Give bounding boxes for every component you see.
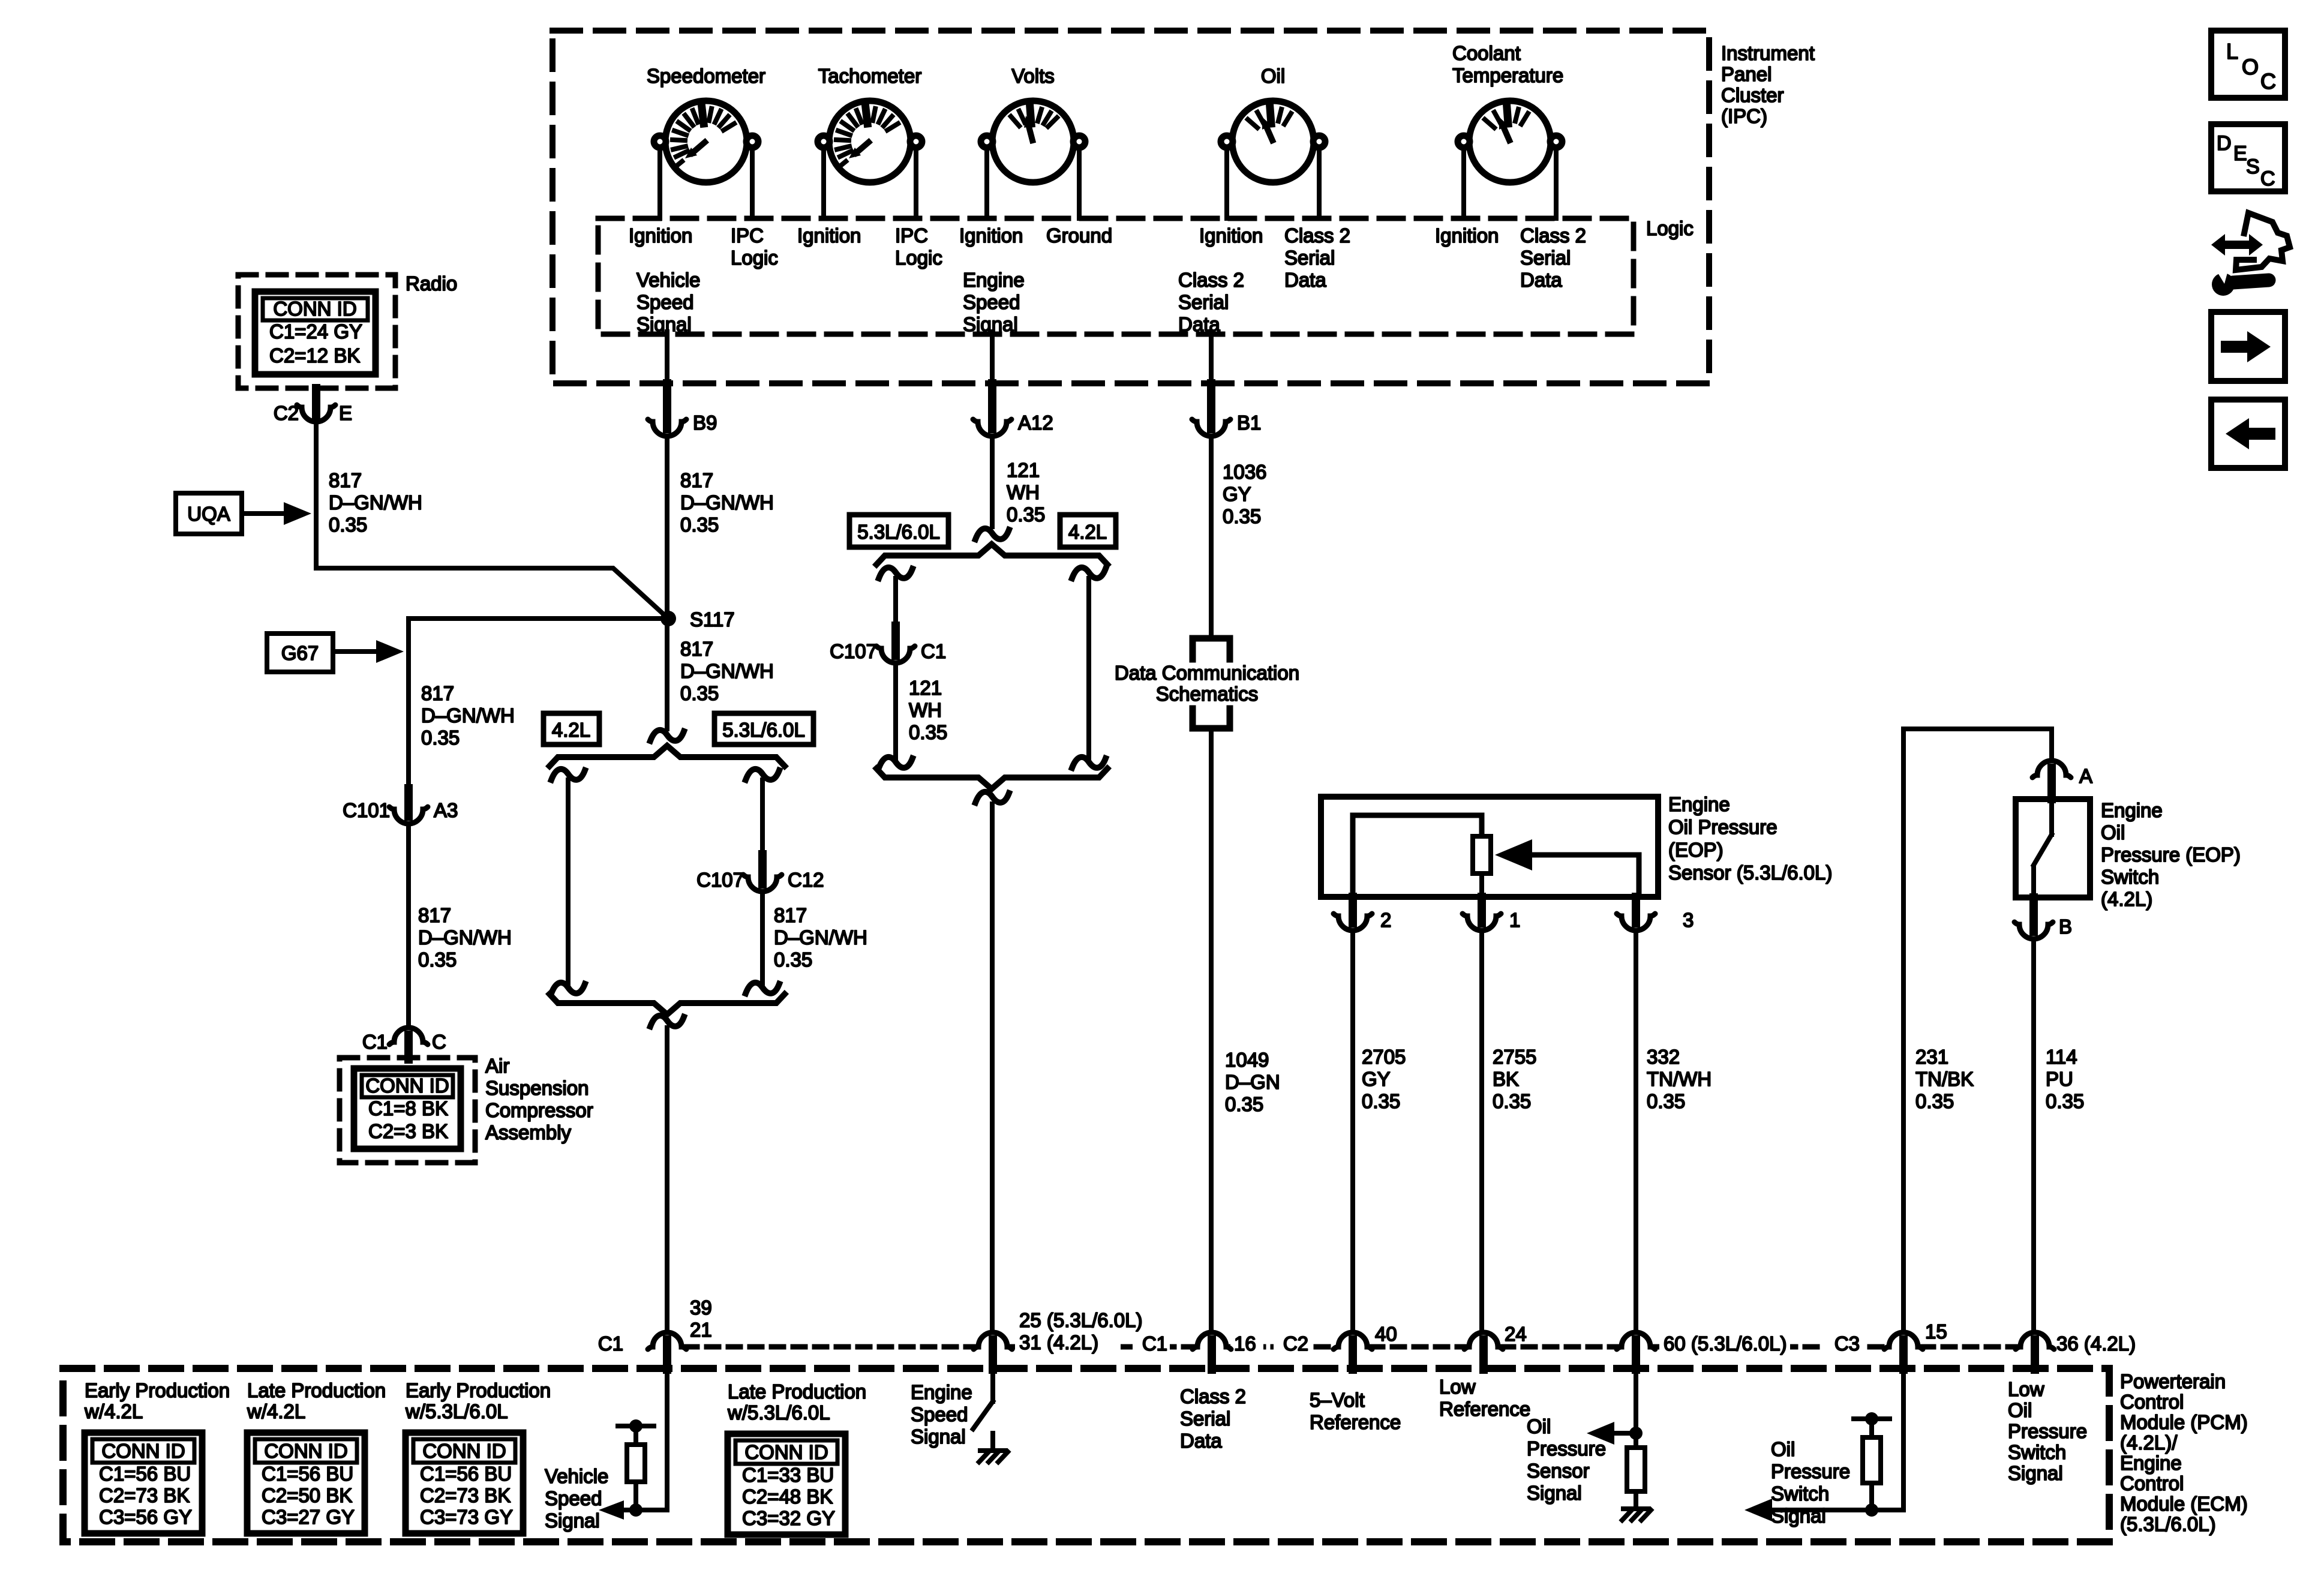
air suspension compressor box <box>340 1058 475 1163</box>
label wire 114 PU <box>2046 1046 2084 1112</box>
svg-text:E: E <box>2233 142 2247 165</box>
svg-text:(4.2L)/: (4.2L)/ <box>2120 1431 2178 1454</box>
svg-text:C2=50 BK: C2=50 BK <box>262 1484 352 1506</box>
label wire 817 (B9 drop) <box>680 469 774 536</box>
svg-text:D–GN/WH: D–GN/WH <box>329 491 422 514</box>
svg-text:121: 121 <box>909 677 942 699</box>
svg-text:C2: C2 <box>274 402 299 424</box>
label 5-Volt Reference <box>1310 1389 1401 1433</box>
svg-text:Ground: Ground <box>1046 224 1112 247</box>
svg-text:GY: GY <box>1362 1068 1391 1090</box>
label Engine Oil Pressure (EOP) Sensor <box>1668 793 1832 884</box>
switch blade (EOP switch) <box>2034 799 2052 897</box>
option box 5.3L/6.0L (left, group 2) <box>849 515 948 547</box>
icon diagnostic jump (arrows + wrench) <box>2211 213 2290 296</box>
label wire 817 (C107/C12) <box>774 904 867 971</box>
svg-text:Ignition: Ignition <box>1199 224 1263 247</box>
svg-text:C3=27 GY: C3=27 GY <box>262 1506 355 1528</box>
label Air Suspension Compressor Assembly <box>485 1055 593 1143</box>
svg-text:0.35: 0.35 <box>1223 505 1261 527</box>
wire EOP sensor pin 3 down <box>1634 930 1638 1332</box>
svg-text:Class 2: Class 2 <box>1178 269 1244 291</box>
wire B1 drop <box>1209 436 1214 638</box>
svg-text:Schematics: Schematics <box>1156 683 1259 705</box>
svg-text:0.35: 0.35 <box>1647 1090 1685 1112</box>
pin Volts Ground <box>1046 224 1112 247</box>
svg-text:0.35: 0.35 <box>421 727 460 749</box>
svg-text:4.2L: 4.2L <box>1068 521 1107 543</box>
wire S117 left branch <box>409 619 668 788</box>
G67 option box <box>267 634 404 672</box>
svg-text:Suspension: Suspension <box>485 1077 588 1099</box>
svg-text:B1: B1 <box>1237 412 1261 434</box>
svg-text:Class 2: Class 2 <box>1520 224 1586 247</box>
node Logic label <box>1646 217 1694 239</box>
reference Data Communication Schematics <box>1115 638 1299 728</box>
svg-text:C1=56 BU: C1=56 BU <box>420 1463 512 1485</box>
svg-text:Module (PCM): Module (PCM) <box>2120 1411 2248 1433</box>
svg-text:IPC: IPC <box>895 224 928 247</box>
svg-text:Logic: Logic <box>895 247 942 269</box>
svg-text:Serial: Serial <box>1284 247 1335 269</box>
wire EOP sensor pin 2 down <box>1350 930 1355 1332</box>
svg-text:2755: 2755 <box>1493 1046 1536 1068</box>
svg-text:w/4.2L: w/4.2L <box>84 1400 143 1422</box>
svg-text:Speed: Speed <box>911 1403 968 1425</box>
junction oil pressure switch <box>1865 1503 1878 1517</box>
resistor (EOP sensor element) <box>1473 836 1491 873</box>
svg-text:Data: Data <box>1180 1430 1222 1452</box>
svg-text:40: 40 <box>1375 1323 1397 1345</box>
svg-text:Compressor: Compressor <box>485 1099 593 1121</box>
connector C107 / C12 <box>696 854 824 891</box>
svg-text:(IPC): (IPC) <box>1721 105 1767 127</box>
connector B (EOP switch) <box>2014 897 2072 939</box>
brace top (group 2) <box>876 544 1107 565</box>
svg-text:C3: C3 <box>1834 1332 1860 1355</box>
svg-text:Signal: Signal <box>1771 1505 1826 1527</box>
svg-text:Ignition: Ignition <box>959 224 1023 247</box>
splice option tilde (A12 upper) <box>975 529 1009 539</box>
connector PCM C1 pin 16 <box>1142 1332 1256 1370</box>
gauge Volts <box>981 65 1085 182</box>
svg-text:Data Communication: Data Communication <box>1115 662 1299 684</box>
svg-text:Class 2: Class 2 <box>1180 1385 1246 1407</box>
wire pin B down <box>2031 939 2036 1332</box>
svg-text:C101: C101 <box>343 799 390 821</box>
svg-text:Low: Low <box>2008 1378 2044 1400</box>
svg-text:Instrument: Instrument <box>1721 42 1815 64</box>
icon LOC box <box>2211 31 2285 98</box>
splice option tilde (A12 lower) <box>975 792 1009 1332</box>
table CONN ID (late 5.3/6.0) <box>728 1434 845 1535</box>
svg-text:Signal: Signal <box>2008 1462 2063 1484</box>
svg-text:D: D <box>2217 132 2232 155</box>
wire Oil left leg <box>1224 148 1229 218</box>
wire IPC output to B9 <box>665 332 669 383</box>
connector C1 / C (compressor) <box>362 1028 446 1059</box>
svg-text:Signal: Signal <box>636 313 692 335</box>
resistor (oil pressure switch pullup) <box>1854 1412 1890 1510</box>
svg-text:Early Production: Early Production <box>406 1379 551 1401</box>
wire 1049 D-GN <box>1209 728 1214 1332</box>
splice option tilde (B9 upper) <box>650 619 684 741</box>
wire 817 D-GN/WH from radio <box>316 421 668 619</box>
svg-text:Volts: Volts <box>1011 65 1055 87</box>
wire IPC output to B1 <box>1209 332 1214 383</box>
svg-text:Ignition: Ignition <box>629 224 692 247</box>
svg-text:Reference: Reference <box>1439 1398 1530 1420</box>
svg-text:15: 15 <box>1925 1320 1947 1343</box>
svg-text:Speed: Speed <box>545 1487 602 1509</box>
svg-text:Air: Air <box>485 1055 509 1077</box>
IPC label <box>1721 42 1815 127</box>
connector C2 / E (Radio) <box>274 388 352 424</box>
label Low Reference <box>1439 1376 1530 1420</box>
wire Speedometer left leg <box>657 148 662 218</box>
UQA option box <box>176 493 311 534</box>
option box 4.2L (left) <box>544 713 599 745</box>
svg-text:Switch: Switch <box>2101 866 2159 888</box>
svg-text:CONN ID: CONN ID <box>365 1074 449 1097</box>
wire Coolant right leg <box>1554 148 1559 218</box>
wire pin 60 into PCM <box>1634 1370 1638 1433</box>
svg-text:5.3L/6.0L: 5.3L/6.0L <box>857 521 940 543</box>
radio CONN ID table <box>255 292 376 374</box>
svg-text:25 (5.3L/6.0L): 25 (5.3L/6.0L) <box>1019 1309 1142 1331</box>
wire Tachometer left leg <box>821 148 826 218</box>
svg-text:w/5.3L/6.0L: w/5.3L/6.0L <box>727 1401 830 1424</box>
svg-text:39: 39 <box>690 1296 712 1319</box>
connector PCM C2 pin 40 <box>1283 1323 1397 1370</box>
svg-text:UQA: UQA <box>187 503 230 525</box>
splice S117 <box>660 608 735 631</box>
svg-text:C2=12 BK: C2=12 BK <box>269 344 360 367</box>
svg-text:C2=73 BK: C2=73 BK <box>99 1484 190 1506</box>
brace left vertical 4.2L path <box>551 769 585 993</box>
svg-text:Speedometer: Speedometer <box>647 65 765 87</box>
label Early Production w/4.2L <box>84 1379 230 1422</box>
svg-text:16: 16 <box>1234 1332 1256 1355</box>
svg-text:C12: C12 <box>788 869 824 891</box>
icon previous arrow box <box>2211 400 2285 468</box>
label wire 231 TN/BK <box>1915 1046 1974 1112</box>
svg-text:Signal: Signal <box>545 1509 600 1532</box>
svg-text:Ignition: Ignition <box>797 224 861 247</box>
wire below C107/C12 <box>746 891 779 993</box>
svg-text:0.35: 0.35 <box>1007 503 1045 526</box>
brace bottom (group 1) <box>550 994 785 1014</box>
connector C101 / A3 <box>343 788 458 824</box>
svg-text:A12: A12 <box>1018 412 1053 434</box>
svg-text:C: C <box>2260 69 2276 94</box>
svg-text:Oil: Oil <box>1527 1415 1551 1437</box>
label wire 817 (radio drop) <box>329 469 422 536</box>
svg-text:Coolant: Coolant <box>1452 42 1521 64</box>
svg-text:C107: C107 <box>830 640 877 662</box>
svg-text:Oil: Oil <box>2101 821 2125 843</box>
svg-text:TN/BK: TN/BK <box>1915 1068 1974 1090</box>
svg-text:Control: Control <box>2120 1472 2184 1494</box>
svg-text:CONN ID: CONN ID <box>422 1440 506 1462</box>
svg-text:Vehicle: Vehicle <box>545 1465 608 1487</box>
wire PCM connector interface (dotted) <box>685 1344 2017 1350</box>
svg-text:S117: S117 <box>690 608 735 631</box>
svg-text:Serial: Serial <box>1520 247 1571 269</box>
svg-text:Reference: Reference <box>1310 1411 1401 1433</box>
connector B9 <box>648 383 717 436</box>
svg-text:Logic: Logic <box>731 247 778 269</box>
EOP sensor box (Engine Oil Pressure Sensor) <box>1321 797 1658 897</box>
wire EOP sensor pin 1 down <box>1479 930 1484 1332</box>
table CONN ID (late 4.2L) <box>247 1433 365 1533</box>
svg-text:2705: 2705 <box>1362 1046 1406 1068</box>
svg-text:Speed: Speed <box>963 291 1020 313</box>
brace right vertical 5.3L/6.0L path <box>746 769 779 854</box>
svg-text:Vehicle: Vehicle <box>636 269 700 291</box>
label wire 817 (to compressor) <box>418 904 512 971</box>
resistor (vehicle speed pullup) <box>618 1419 654 1510</box>
svg-text:C1: C1 <box>362 1031 388 1053</box>
svg-text:Powerterain: Powerterain <box>2120 1370 2226 1392</box>
svg-text:31 (4.2L): 31 (4.2L) <box>1019 1331 1098 1353</box>
svg-text:A3: A3 <box>434 799 458 821</box>
svg-text:CONN ID: CONN ID <box>744 1441 828 1463</box>
svg-text:1036: 1036 <box>1223 461 1266 483</box>
label Late Production w/5.3L/6.0L <box>727 1380 866 1424</box>
svg-text:C1=33 BU: C1=33 BU <box>742 1464 834 1486</box>
svg-text:Oil Pressure: Oil Pressure <box>1668 816 1777 838</box>
pin Oil Class 2 Serial Data <box>1284 224 1350 291</box>
connector PCM pin 24 <box>1464 1323 1527 1370</box>
svg-text:(5.3L/6.0L): (5.3L/6.0L) <box>2120 1513 2216 1535</box>
label wire 817 (left branch) <box>421 682 515 749</box>
svg-text:5–Volt: 5–Volt <box>1310 1389 1365 1411</box>
svg-text:Late Production: Late Production <box>728 1380 866 1403</box>
label Powerterain Control Module <box>2120 1370 2248 1535</box>
svg-text:Data: Data <box>1284 269 1326 291</box>
svg-text:A: A <box>2079 765 2092 787</box>
resistor (oil pressure sensor) <box>1627 1433 1645 1491</box>
svg-text:Engine: Engine <box>2120 1452 2182 1474</box>
svg-text:(EOP): (EOP) <box>1668 839 1724 861</box>
svg-text:C1: C1 <box>1142 1332 1167 1355</box>
svg-text:1: 1 <box>1509 909 1520 931</box>
option box 5.3L/6.0L (right) <box>714 713 813 745</box>
svg-text:C2=3 BK: C2=3 BK <box>368 1120 448 1142</box>
svg-text:C107: C107 <box>696 869 744 891</box>
svg-text:Switch: Switch <box>2008 1441 2066 1463</box>
wire 817 D-GN/WH from B9 <box>665 436 669 619</box>
pin Tachometer Ignition <box>797 224 861 247</box>
pin Coolant Class 2 Serial Data <box>1520 224 1586 291</box>
svg-text:O: O <box>2242 55 2259 79</box>
pin Oil Ignition <box>1199 224 1263 247</box>
gauge Tachometer <box>818 65 922 182</box>
wire Tachometer right leg <box>914 148 918 218</box>
svg-text:C1=56 BU: C1=56 BU <box>262 1463 353 1485</box>
connector EOP sensor pin 2 <box>1334 897 1391 931</box>
svg-text:24: 24 <box>1505 1323 1527 1345</box>
pin Tachometer IPC Logic <box>895 224 942 269</box>
svg-text:817: 817 <box>329 469 362 491</box>
svg-text:G67: G67 <box>281 642 319 664</box>
svg-text:Radio: Radio <box>406 272 457 295</box>
svg-text:Pressure: Pressure <box>1771 1460 1850 1482</box>
svg-text:C: C <box>2260 167 2275 190</box>
svg-text:Tachometer: Tachometer <box>818 65 921 87</box>
node Engine Speed Signal (IPC) <box>963 269 1025 335</box>
svg-text:C1=24 GY: C1=24 GY <box>269 320 362 343</box>
svg-text:3: 3 <box>1683 909 1694 931</box>
wire below C107/C1 <box>879 663 912 768</box>
brace top (group 1) <box>550 746 785 766</box>
radio box (Radio) <box>238 272 457 388</box>
junction vehicle speed <box>629 1503 642 1517</box>
label wire 332 TN/WH <box>1647 1046 1712 1112</box>
svg-text:(4.2L): (4.2L) <box>2101 888 2152 910</box>
svg-text:Engine: Engine <box>963 269 1025 291</box>
PCM dashed box (Powertrain Control Module) <box>63 1368 2109 1542</box>
label backgrounds on connector row <box>1015 1332 1864 1355</box>
svg-text:Switch: Switch <box>1771 1482 1829 1505</box>
node Vehicle Speed Signal (IPC) <box>636 269 700 335</box>
svg-text:114: 114 <box>2046 1046 2077 1068</box>
svg-text:C1=8 BK: C1=8 BK <box>368 1097 448 1119</box>
svg-text:Oil: Oil <box>1771 1438 1795 1460</box>
svg-text:1049: 1049 <box>1225 1049 1269 1071</box>
svg-text:TN/WH: TN/WH <box>1647 1068 1712 1090</box>
svg-text:817: 817 <box>421 682 454 704</box>
brace bottom (group 2) <box>876 769 1107 789</box>
svg-text:Data: Data <box>1520 269 1562 291</box>
label Engine Oil Pressure (EOP) Switch (4.2L) <box>2101 799 2241 910</box>
wire C101 to air suspension <box>406 824 411 1027</box>
svg-text:D–GN/WH: D–GN/WH <box>418 926 512 948</box>
svg-text:Ignition: Ignition <box>1435 224 1499 247</box>
wire Coolant left leg <box>1461 148 1466 218</box>
wire resistor to pin 1 <box>1479 873 1484 897</box>
svg-text:C2: C2 <box>1283 1332 1308 1355</box>
connector PCM pin 60 <box>1617 1332 1786 1370</box>
pin Volts Ignition <box>959 224 1023 247</box>
wire EOP switch feed <box>1903 729 2052 1332</box>
svg-text:C1=56 BU: C1=56 BU <box>99 1463 191 1485</box>
connector PCM C3 pin 15 <box>1834 1320 1947 1370</box>
svg-text:817: 817 <box>680 469 713 491</box>
svg-text:817: 817 <box>680 638 713 660</box>
wiper arrow (EOP sensor) <box>1495 839 1639 897</box>
svg-text:4.2L: 4.2L <box>552 719 590 741</box>
connector PCM pin 36 <box>2016 1332 2136 1370</box>
connector B1 <box>1192 383 1261 436</box>
svg-text:332: 332 <box>1647 1046 1680 1068</box>
svg-text:0.35: 0.35 <box>1915 1090 1954 1112</box>
label wire 121 WH (C107/C1) <box>909 677 947 743</box>
table CONN ID (early 5.3/6.0) <box>406 1433 523 1533</box>
pin Speedometer IPC Logic <box>731 224 778 269</box>
svg-text:Engine: Engine <box>1668 793 1730 815</box>
svg-text:D–GN/WH: D–GN/WH <box>680 660 774 682</box>
svg-text:817: 817 <box>774 904 807 926</box>
gauge Speedometer <box>647 65 765 182</box>
svg-text:Oil: Oil <box>1261 65 1285 87</box>
svg-text:Pressure (EOP): Pressure (EOP) <box>2101 843 2241 866</box>
svg-text:36 (4.2L): 36 (4.2L) <box>2056 1332 2136 1355</box>
svg-text:C3=56 GY: C3=56 GY <box>99 1506 192 1528</box>
connector C107 / C1 <box>830 626 946 663</box>
svg-text:C1: C1 <box>598 1332 623 1355</box>
splice option tilde (B9 lower) <box>650 1016 684 1332</box>
svg-text:Early Production: Early Production <box>85 1379 230 1401</box>
brace right vertical 4.2L path (group 2) <box>1072 568 1106 768</box>
svg-text:Temperature: Temperature <box>1452 64 1563 86</box>
connector PCM pin 25/31 (engine speed) <box>974 1309 1142 1370</box>
label Oil Pressure Switch Signal <box>1771 1438 1850 1527</box>
wire Volts left leg <box>984 148 989 218</box>
svg-text:817: 817 <box>418 904 451 926</box>
label wire 1049 D-GN <box>1225 1049 1280 1115</box>
svg-text:Module (ECM): Module (ECM) <box>2120 1493 2248 1515</box>
svg-text:B: B <box>2059 915 2072 938</box>
svg-text:Engine: Engine <box>2101 799 2163 821</box>
svg-text:2: 2 <box>1380 909 1391 931</box>
label Engine Speed Signal (PCM) <box>911 1381 972 1448</box>
svg-text:0.35: 0.35 <box>329 514 367 536</box>
svg-text:0.35: 0.35 <box>2046 1090 2084 1112</box>
svg-text:0.35: 0.35 <box>418 948 457 971</box>
gauge Coolant Temperature <box>1452 42 1563 182</box>
svg-text:Serial: Serial <box>1180 1407 1230 1430</box>
ground (oil pressure sensor) <box>1622 1491 1651 1520</box>
svg-text:IPC: IPC <box>731 224 764 247</box>
svg-text:0.35: 0.35 <box>909 721 947 743</box>
svg-text:Class 2: Class 2 <box>1284 224 1350 247</box>
table CONN ID (early 4.2L) <box>85 1433 202 1533</box>
svg-text:C2=73 BK: C2=73 BK <box>420 1484 511 1506</box>
svg-text:121: 121 <box>1007 459 1040 481</box>
label Class 2 Serial Data (PCM) <box>1180 1385 1246 1452</box>
svg-text:D–GN/WH: D–GN/WH <box>421 704 515 727</box>
svg-text:w/4.2L: w/4.2L <box>247 1400 305 1422</box>
pin Coolant Ignition <box>1435 224 1499 247</box>
wire Oil right leg <box>1317 148 1322 218</box>
label Early Production w/5.3L/6.0L <box>405 1379 551 1422</box>
IPC logic inner dashed box <box>598 218 1634 334</box>
svg-text:60 (5.3L/6.0L): 60 (5.3L/6.0L) <box>1664 1332 1786 1355</box>
svg-text:S: S <box>2246 155 2260 178</box>
label wire 2705 GY <box>1362 1046 1406 1112</box>
IPC dashed box (Instrument Panel Cluster) <box>553 31 1709 383</box>
wire IPC output to A12 <box>990 332 995 383</box>
svg-text:w/5.3L/6.0L: w/5.3L/6.0L <box>405 1400 508 1422</box>
label wire 121 WH (A12) <box>1007 459 1045 526</box>
svg-text:CONN ID: CONN ID <box>264 1440 347 1462</box>
svg-text:231: 231 <box>1915 1046 1948 1068</box>
brace left vertical 5.3L/6.0L path (group 2) <box>879 568 912 626</box>
svg-text:Sensor: Sensor <box>1527 1460 1590 1482</box>
svg-text:Logic: Logic <box>1646 217 1694 239</box>
wire C1 39/21 into PCM <box>623 1370 667 1510</box>
svg-text:Oil: Oil <box>2008 1399 2032 1421</box>
svg-text:C1: C1 <box>921 640 946 662</box>
svg-text:D–GN/WH: D–GN/WH <box>774 926 867 948</box>
svg-text:Cluster: Cluster <box>1721 84 1784 106</box>
oil pressure sensor signal arrow <box>1587 1422 1636 1445</box>
air suspension CONN ID table <box>354 1068 461 1149</box>
EOP switch box <box>2016 799 2090 897</box>
svg-text:Panel: Panel <box>1721 63 1771 85</box>
